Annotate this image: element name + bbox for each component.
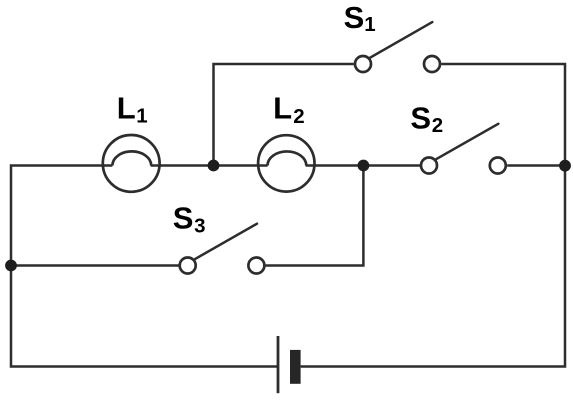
label L1 — [117, 90, 148, 127]
wire right vertical lower + bottom-right segment — [301, 166, 565, 367]
svg-text:2: 2 — [432, 114, 443, 137]
switch S1 — [355, 22, 440, 72]
wire top branch (junction A up and right to S1) — [214, 64, 354, 166]
switch S2 — [421, 124, 506, 174]
wire S3 right contact to vertical riser to junction B — [266, 166, 364, 266]
lamp L2 — [258, 135, 314, 191]
wire S3 branch left segment — [11, 264, 179, 267]
wire main between L2 and S2 — [306, 164, 420, 167]
svg-text:1: 1 — [136, 104, 147, 127]
svg-text:S: S — [344, 0, 365, 35]
label L2 — [273, 91, 305, 128]
svg-text:L: L — [273, 91, 292, 126]
label S1 — [344, 0, 376, 36]
lamp L1 — [103, 135, 160, 192]
svg-text:1: 1 — [364, 13, 375, 36]
node A (junction L1/L2 to top branch) — [208, 160, 220, 172]
battery B1 short thick plate — [290, 350, 301, 384]
node B (junction main wire / S3 riser) — [358, 160, 370, 172]
label S2 — [410, 100, 443, 137]
svg-text:S: S — [173, 200, 194, 235]
switch S3 — [180, 224, 265, 274]
svg-text:S: S — [410, 100, 431, 135]
svg-text:3: 3 — [194, 215, 205, 238]
node C (junction S2 / right vertical) — [559, 160, 571, 172]
wire main from S2 to right vertical — [507, 164, 565, 167]
svg-text:L: L — [117, 90, 136, 125]
svg-text:2: 2 — [293, 105, 304, 128]
label S3 — [173, 200, 206, 237]
battery B1 long plate — [277, 336, 280, 393]
node D (junction left vertical / S3 branch) — [5, 260, 17, 272]
wire left vertical + bottom-left segment — [11, 166, 278, 367]
wire main between L1 and L2 — [151, 164, 268, 167]
wire from S1 right contact to right vertical corner — [441, 64, 565, 166]
